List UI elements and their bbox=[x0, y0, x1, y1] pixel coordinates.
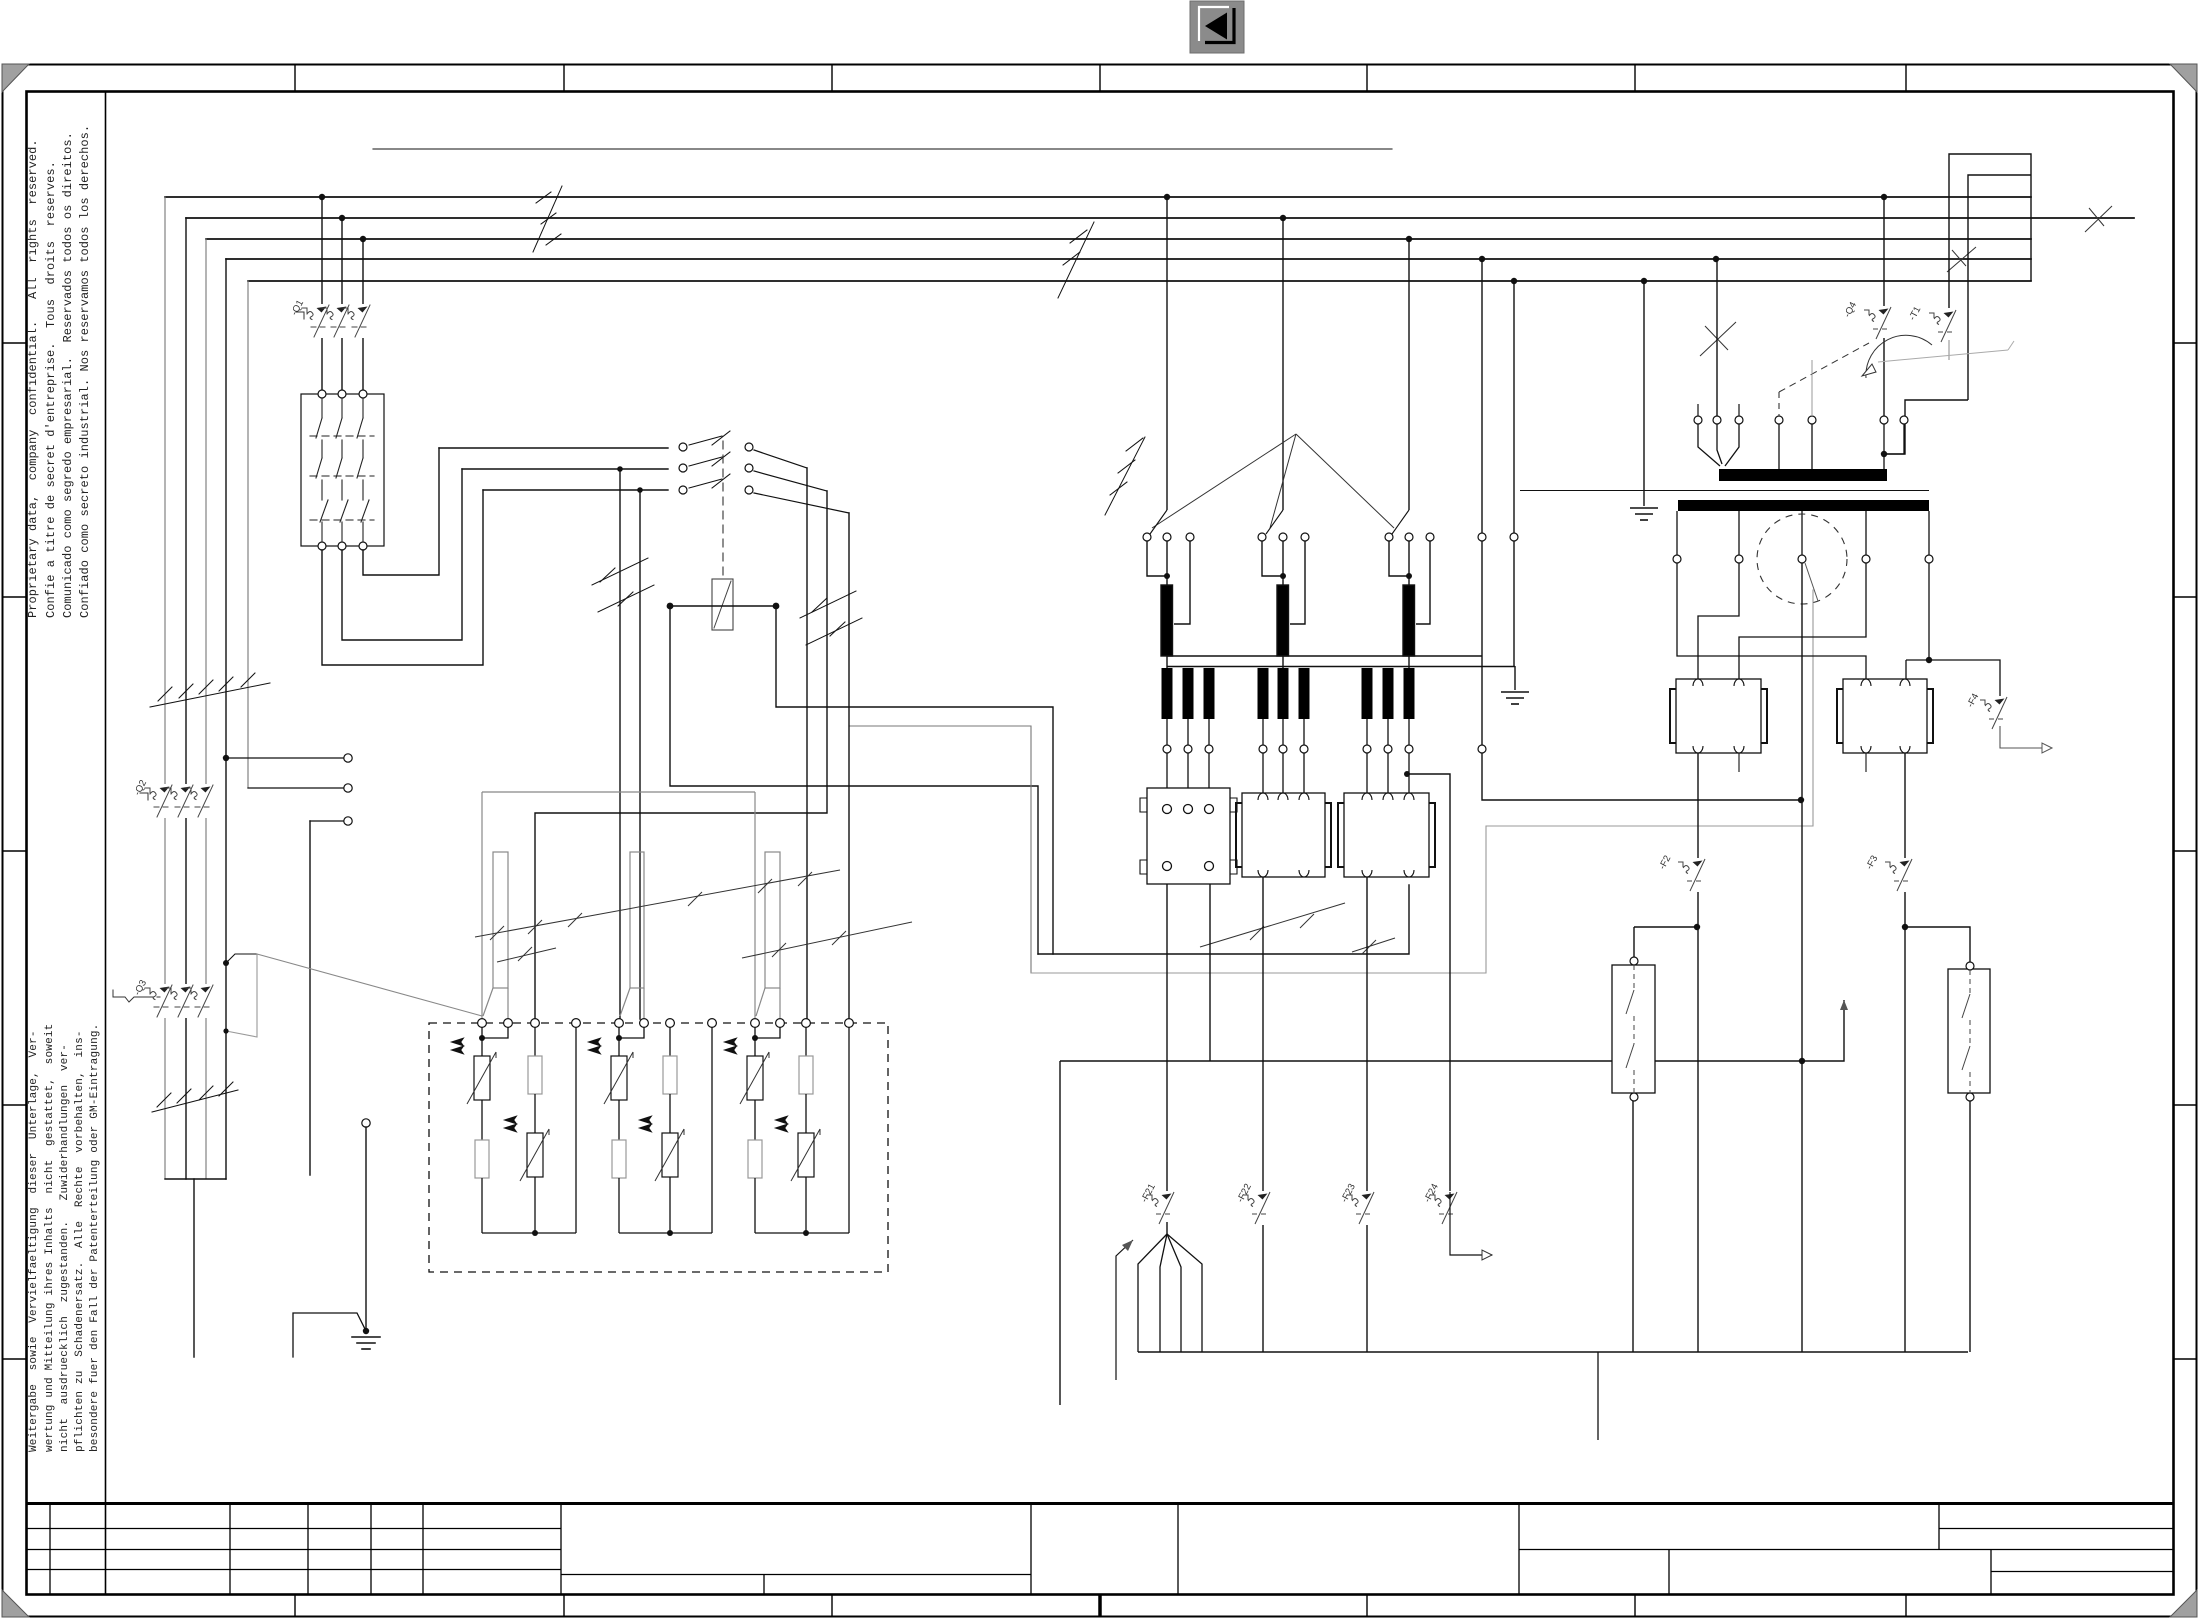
svg-text:-T1: -T1 bbox=[1907, 305, 1923, 323]
svg-text:-Q2: -Q2 bbox=[132, 778, 149, 797]
svg-text:-F2: -F2 bbox=[1657, 854, 1673, 872]
svg-text:-F21: -F21 bbox=[1139, 1182, 1158, 1204]
svg-text:-F23: -F23 bbox=[1339, 1182, 1358, 1204]
svg-text:-F3: -F3 bbox=[1864, 854, 1880, 872]
svg-text:-F24: -F24 bbox=[1422, 1182, 1441, 1204]
svg-text:-Q3: -Q3 bbox=[132, 978, 149, 997]
svg-text:-F4: -F4 bbox=[1965, 692, 1981, 710]
svg-text:-Q4: -Q4 bbox=[1842, 300, 1859, 319]
svg-text:-F22: -F22 bbox=[1235, 1182, 1254, 1204]
